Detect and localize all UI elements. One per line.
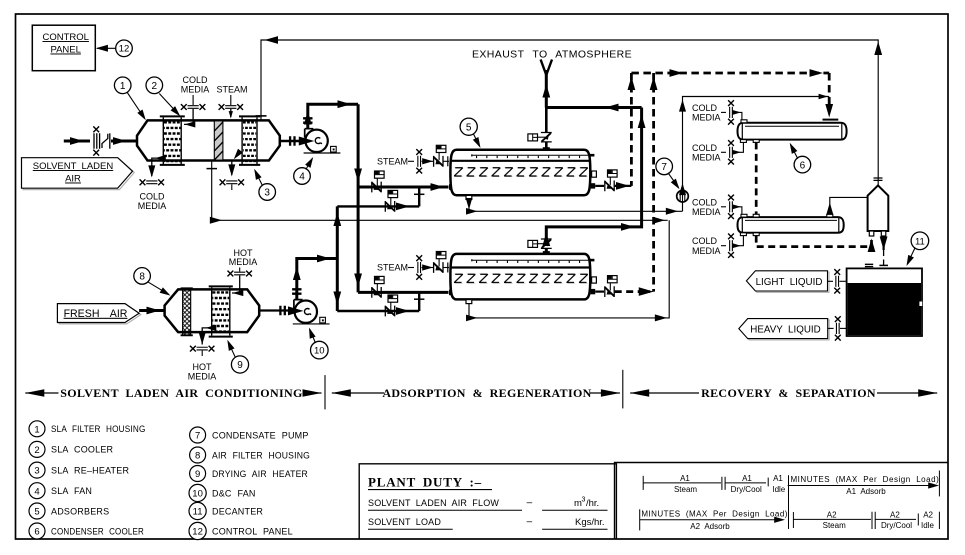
label circle 3 [251, 167, 275, 200]
svg-text:A1: A1 [773, 474, 783, 483]
label circle 4 [294, 155, 316, 184]
svg-text:12: 12 [119, 44, 130, 55]
section divider line 1 [324, 375, 326, 409]
svg-text:CONDENSATE PUMP: CONDENSATE PUMP [212, 430, 309, 440]
svg-text:ADSORPTION & REGENERATION: ADSORPTION & REGENERATION [382, 386, 591, 400]
svg-text:10: 10 [192, 489, 203, 500]
svg-text:MEDIA: MEDIA [181, 84, 210, 94]
SLA filter housing vessel (item 1) [137, 120, 280, 160]
svg-text:MEDIA: MEDIA [188, 371, 217, 381]
legend item 2 [29, 441, 114, 457]
svg-text:MINUTES (MAX Per Design Lo: MINUTES (MAX Per Design Load) [641, 510, 787, 519]
svg-text:3: 3 [582, 496, 586, 503]
FRESH AIR label [57, 304, 140, 324]
label circle 8 [134, 268, 172, 299]
svg-text:4: 4 [299, 172, 305, 183]
separator outlet down to decanter [879, 236, 888, 283]
svg-text:DRYING AIR HEATER: DRYING AIR HEATER [212, 469, 308, 479]
svg-text:8: 8 [139, 272, 145, 283]
section title SOLVENT LADEN AIR CONDITIONING [25, 386, 321, 400]
D&C fan discharge to drying air header [292, 255, 337, 300]
svg-text:6: 6 [800, 160, 806, 171]
adsorber vessel A2 (item 5) [450, 254, 596, 300]
adsorber A2 drain to riser [466, 220, 669, 321]
cycle row A2 steam/dry-cool/idle [793, 510, 939, 530]
svg-text:–: – [527, 497, 533, 508]
legend item 12 [189, 522, 293, 539]
svg-text:MEDIA: MEDIA [692, 246, 721, 256]
condensate drop from upper to lower condenser (dashed) [755, 142, 758, 214]
cold media outlet upper condenser [692, 140, 743, 164]
exhaust header [546, 104, 641, 112]
label circle 11 [904, 232, 929, 267]
legend item 9 [190, 466, 309, 482]
svg-text:SOLVENT LADEN AIR CONDITIONING: SOLVENT LADEN AIR CONDITIONING [60, 386, 302, 400]
svg-text:COLD: COLD [692, 103, 718, 113]
svg-text:MEDIA: MEDIA [692, 153, 721, 163]
steam inlet valve (top of SLA re-heater) [216, 84, 247, 118]
svg-text:Dry/Cool: Dry/Cool [881, 521, 912, 530]
lower condenser vent line to separator [826, 197, 867, 214]
svg-text:STEAM: STEAM [377, 263, 408, 273]
svg-text:PLANT DUTY :–: PLANT DUTY :– [368, 475, 482, 490]
legend item 1 [29, 421, 146, 437]
drying air branch to adsorber A2 [337, 294, 424, 317]
svg-text:2: 2 [152, 81, 158, 92]
svg-text:A1 Adsorb: A1 Adsorb [846, 487, 886, 496]
svg-text:/hr.: /hr. [586, 498, 599, 509]
cycle timing table box [615, 463, 948, 539]
cold media inlet lower condenser [692, 195, 742, 219]
legend item 5 [29, 503, 109, 519]
svg-text:SOLVENT LADEN AIR FLOW: SOLVENT LADEN AIR FLOW [368, 498, 499, 508]
cold media inlet upper condenser [692, 100, 742, 124]
legend item 7 [190, 427, 309, 443]
svg-text:Kgs/hr.: Kgs/hr. [575, 517, 605, 528]
control panel box (item 12) [32, 25, 95, 70]
svg-text:EXHAUST TO ATMOSPHERE: EXHAUST TO ATMOSPHERE [472, 49, 632, 61]
svg-text:1: 1 [120, 81, 126, 92]
svg-text:11: 11 [915, 236, 925, 247]
condenser cooler lower exchanger (item 6) [738, 214, 844, 235]
svg-text:7: 7 [195, 431, 200, 442]
SLA fan discharge line up and over to adsorber feed riser [303, 100, 358, 128]
regeneration vapour header to condenser (dashed) [631, 69, 833, 117]
svg-text:COLD: COLD [692, 143, 718, 153]
air filter element [181, 288, 193, 335]
svg-text:PANEL: PANEL [50, 45, 80, 56]
SLA filter element [214, 121, 223, 160]
svg-text:1: 1 [34, 424, 39, 435]
svg-text:SOLVENT LADEN: SOLVENT LADEN [33, 161, 114, 172]
hot media inlet valve (top of heater) [228, 248, 258, 296]
svg-text:A2 Adsorb: A2 Adsorb [690, 522, 730, 531]
svg-text:COLD: COLD [692, 197, 718, 207]
hot media outlet valve (bottom of heater) [188, 325, 217, 382]
steam line to adsorber A1 [377, 145, 455, 173]
legend item 6 [29, 523, 144, 539]
svg-text:SLA RE–HEATER: SLA RE–HEATER [51, 465, 129, 475]
light liquid valve [828, 269, 847, 293]
exhaust stack and vent [541, 60, 552, 108]
svg-text:MINUTES (MAX Per Design Lo: MINUTES (MAX Per Design Load) [791, 475, 940, 484]
svg-text:8: 8 [195, 451, 200, 462]
section title RECOVERY & SEPARATION [630, 386, 937, 400]
condensate pump discharge line to condenser inlet [679, 94, 829, 195]
svg-text:9: 9 [195, 469, 200, 480]
regeneration vapour riser from A2 (dashed) [650, 73, 658, 292]
svg-text:CONTROL: CONTROL [42, 32, 88, 43]
heavy liquid valve [828, 316, 847, 340]
svg-text:A1: A1 [680, 474, 690, 483]
cycle row A1 adsorb [788, 471, 940, 497]
svg-text:6: 6 [34, 527, 39, 538]
adsorber A2 outlet valve to regeneration riser (dashed) [591, 276, 654, 297]
legend item 4 [29, 483, 92, 499]
HEAVY LIQUID outlet label [739, 319, 829, 340]
leader arrow from circle 12 to control panel [96, 45, 116, 52]
svg-text:10: 10 [314, 346, 325, 357]
EXHAUST TO ATMOSPHERE text [472, 49, 632, 61]
label circle 12 [116, 40, 133, 57]
svg-text:SLA FAN: SLA FAN [51, 486, 92, 496]
svg-text:9: 9 [237, 360, 243, 371]
condensate line to separator (dashed) [756, 236, 875, 252]
svg-text:SOLVENT LOAD: SOLVENT LOAD [368, 517, 441, 527]
legend item 3 [29, 462, 129, 478]
label circle 1 [114, 77, 148, 122]
recycle line from separator top to SLA vessel top [256, 36, 883, 186]
svg-text:LIGHT LIQUID: LIGHT LIQUID [756, 277, 823, 288]
air filter housing vessel (item 8) [165, 289, 260, 332]
svg-text:RECOVERY & SEPARATION: RECOVERY & SEPARATION [701, 386, 876, 400]
svg-text:Steam: Steam [674, 485, 697, 494]
svg-text:Idle: Idle [921, 521, 934, 530]
label circle 10 [306, 326, 328, 358]
svg-text:Idle: Idle [772, 485, 785, 494]
svg-text:–: – [527, 516, 533, 527]
svg-text:2: 2 [34, 445, 39, 456]
svg-text:D&C FAN: D&C FAN [212, 488, 256, 498]
svg-text:A2: A2 [890, 510, 900, 519]
label circle 2 [146, 77, 182, 118]
label circle 6 [787, 141, 811, 173]
SLA vessel outlet to SLA fan [280, 136, 315, 145]
legend item 10 [189, 484, 256, 501]
drying air heater coil (item 9) [209, 286, 233, 336]
svg-text:SLA FILTER HOUSING: SLA FILTER HOUSING [51, 424, 146, 434]
legend item 11 [189, 502, 263, 519]
label circle 7 [656, 158, 682, 191]
svg-text:DECANTER: DECANTER [212, 506, 263, 516]
condenser cooler upper exchanger (item 6) [738, 120, 847, 143]
adsorber vessel A1 (item 5) [450, 150, 596, 196]
adsorber A1 drain to condensate line [466, 195, 679, 214]
svg-text:COLD: COLD [692, 236, 718, 246]
SOLVENT LADEN AIR label [22, 158, 135, 190]
label circle 5 [460, 118, 483, 149]
steam condensate outlet (bottom of SLA re-heater) [220, 149, 244, 190]
svg-text:AIR: AIR [65, 174, 81, 185]
steam line to adsorber A2 [377, 252, 455, 280]
svg-text:3: 3 [34, 466, 39, 477]
cold media outlet lower condenser [692, 234, 743, 258]
svg-text:Steam: Steam [823, 521, 846, 530]
fresh air inlet arrow [139, 307, 165, 315]
svg-text:MEDIA: MEDIA [138, 201, 167, 211]
SLA re-heater coil (item 3) [239, 116, 260, 164]
adsorber A1 top outlet valve to exhaust [528, 108, 552, 151]
svg-text:12: 12 [192, 527, 203, 538]
svg-text:11: 11 [193, 507, 203, 518]
regeneration vapour riser from A1 (dashed) [628, 73, 636, 186]
label circle 9 [224, 339, 248, 374]
svg-text:HEAVY LIQUID: HEAVY LIQUID [750, 324, 820, 335]
LIGHT LIQUID outlet label [746, 271, 829, 293]
plant duty table box [359, 464, 616, 539]
feed line to adsorber A1 with control valve [358, 171, 454, 192]
drying air header [333, 206, 341, 311]
adsorber A1 outlet valve to regeneration riser [591, 170, 632, 191]
svg-text:3: 3 [264, 188, 270, 199]
svg-text:A2: A2 [827, 510, 837, 519]
svg-text:A2: A2 [923, 510, 933, 519]
section divider line 2 [622, 370, 624, 409]
section title ADSORPTION & REGENERATION [332, 386, 620, 400]
cold media outlet (bottom of SLA cooler) [138, 155, 167, 211]
svg-text:FRESH AIR: FRESH AIR [64, 308, 128, 320]
svg-text:Dry/Cool: Dry/Cool [731, 485, 762, 494]
svg-text:CONTROL PANEL: CONTROL PANEL [212, 526, 293, 536]
svg-text:A1: A1 [742, 474, 752, 483]
SLA fan (item 4) [304, 129, 341, 153]
svg-text:4: 4 [34, 486, 39, 497]
cold media inlet valve (top of SLA cooler) [181, 75, 210, 128]
decanter (item 11) [847, 264, 923, 336]
svg-text:AIR FILTER HOUSING: AIR FILTER HOUSING [212, 450, 310, 460]
separator vessel [868, 178, 889, 236]
svg-text:STEAM: STEAM [216, 84, 247, 94]
cycle row A1 steam/dry-cool/idle [643, 474, 786, 494]
drying air branch to adsorber A1 [337, 188, 424, 212]
svg-text:5: 5 [466, 122, 472, 133]
SLA inlet pipe with flexible connector [64, 126, 137, 155]
legend item 8 [190, 447, 310, 463]
SLA vessel drain line to condensate header [207, 161, 668, 224]
svg-text:ADSORBERS: ADSORBERS [51, 506, 109, 516]
svg-text:MEDIA: MEDIA [692, 113, 721, 123]
feed line to adsorber A2 with control valve [358, 276, 454, 297]
SLA cooler coil (item 2) [160, 116, 185, 164]
D&C fan (item 10) [293, 300, 330, 324]
svg-text:5: 5 [34, 507, 39, 518]
cycle row A2 adsorb [640, 509, 788, 531]
adsorber A2 top outlet valve and line to exhaust riser [528, 108, 646, 254]
svg-text:CONDENSER COOLER: CONDENSER COOLER [51, 526, 144, 536]
svg-text:MEDIA: MEDIA [692, 207, 721, 217]
svg-text:MEDIA: MEDIA [229, 257, 258, 267]
svg-text:7: 7 [661, 162, 667, 173]
svg-text:SLA COOLER: SLA COOLER [51, 445, 114, 455]
adsorber feed riser [354, 104, 362, 292]
condensate pump (item 7) [677, 190, 689, 211]
svg-text:STEAM: STEAM [377, 157, 408, 167]
vessel 8 outlet to D&C fan [259, 306, 303, 316]
